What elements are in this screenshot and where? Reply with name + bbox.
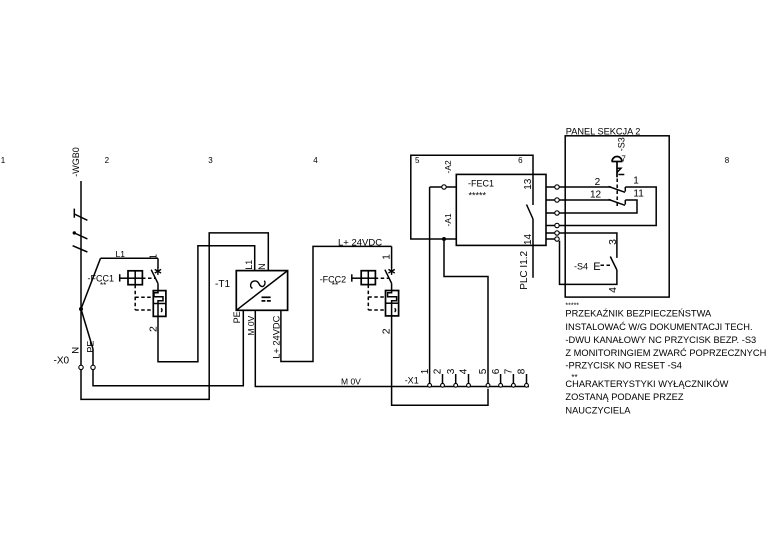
svg-text:-T1: -T1 xyxy=(215,279,230,290)
svg-text:5: 5 xyxy=(478,368,489,374)
svg-text:2: 2 xyxy=(148,326,160,332)
svg-text:-S3: -S3 xyxy=(617,137,627,151)
svg-text:4: 4 xyxy=(607,287,619,293)
svg-text:4: 4 xyxy=(459,368,470,374)
svg-text:M 0V: M 0V xyxy=(246,315,256,335)
svg-text:M 0V: M 0V xyxy=(341,377,361,387)
svg-text:1: 1 xyxy=(1,156,6,165)
svg-text:3: 3 xyxy=(208,156,213,165)
svg-text:ZOSTANĄ PODANE PRZEZ: ZOSTANĄ PODANE PRZEZ xyxy=(565,392,683,402)
svg-text:2: 2 xyxy=(433,368,444,374)
svg-text:5: 5 xyxy=(415,156,420,165)
svg-text:N: N xyxy=(257,263,267,270)
svg-text:14: 14 xyxy=(523,233,534,245)
svg-text:1: 1 xyxy=(381,254,392,260)
svg-text:-PRZYCISK NO RESET -S4: -PRZYCISK NO RESET -S4 xyxy=(565,360,682,370)
svg-text:PLC I1.2: PLC I1.2 xyxy=(519,250,530,289)
svg-text:PANEL SEKCJA 2: PANEL SEKCJA 2 xyxy=(566,127,641,137)
svg-text:-WGB0: -WGB0 xyxy=(71,147,81,177)
svg-text:8: 8 xyxy=(725,156,730,165)
svg-text:7: 7 xyxy=(621,155,626,164)
svg-text:2: 2 xyxy=(105,156,110,165)
svg-text:6: 6 xyxy=(491,368,502,374)
svg-text:4: 4 xyxy=(313,156,318,165)
svg-text:PRZEKAŹNIK BEZPIECZEŃSTWA: PRZEKAŹNIK BEZPIECZEŃSTWA xyxy=(565,309,712,319)
svg-text:L+ 24VDC: L+ 24VDC xyxy=(338,237,382,248)
svg-text:2: 2 xyxy=(380,328,392,334)
svg-text:-S4: -S4 xyxy=(574,262,588,272)
svg-text:12: 12 xyxy=(590,190,602,201)
svg-text:3: 3 xyxy=(607,239,619,245)
svg-text:L1: L1 xyxy=(116,249,126,259)
svg-text:-X1: -X1 xyxy=(405,375,419,385)
svg-text:PE: PE xyxy=(86,341,96,353)
svg-text:-A1: -A1 xyxy=(443,213,453,227)
svg-text:NAUCZYCIELA: NAUCZYCIELA xyxy=(565,405,631,415)
svg-text:8: 8 xyxy=(517,368,528,374)
svg-text:Z MONITORINGIEM ZWARĆ POPRZECZ: Z MONITORINGIEM ZWARĆ POPRZECZNYCH xyxy=(565,348,766,358)
svg-text:11: 11 xyxy=(633,189,644,200)
svg-text:-DWU KANAŁOWY NC PRZYCISK BEZP: -DWU KANAŁOWY NC PRZYCISK BEZP. -S3 xyxy=(565,335,756,345)
svg-text:E: E xyxy=(593,261,600,273)
svg-text:7: 7 xyxy=(504,368,515,374)
svg-text:CHARAKTERYSTYKI WYŁĄCZNIKÓW: CHARAKTERYSTYKI WYŁĄCZNIKÓW xyxy=(565,379,728,389)
svg-text:-A2: -A2 xyxy=(443,160,453,174)
svg-text:13: 13 xyxy=(523,178,534,190)
svg-text:**: ** xyxy=(100,281,106,290)
svg-text:6: 6 xyxy=(518,156,523,165)
svg-text:N: N xyxy=(70,347,81,354)
svg-text:**: ** xyxy=(332,281,338,290)
svg-text:INSTALOWAĆ W/G DOKUMENTACJI TE: INSTALOWAĆ W/G DOKUMENTACJI TECH. xyxy=(565,322,752,332)
svg-text:1: 1 xyxy=(633,176,639,187)
svg-text:1: 1 xyxy=(149,254,160,260)
svg-text:1: 1 xyxy=(420,368,431,374)
svg-text:PE: PE xyxy=(232,311,242,323)
svg-text:3: 3 xyxy=(446,368,457,374)
svg-text:*****: ***** xyxy=(469,190,487,200)
svg-text:-X0: -X0 xyxy=(54,356,70,367)
svg-text:-FEC1: -FEC1 xyxy=(468,178,494,188)
svg-text:L+ 24VDC: L+ 24VDC xyxy=(271,315,281,358)
svg-text:2: 2 xyxy=(595,177,601,188)
svg-text:L1: L1 xyxy=(244,260,254,270)
